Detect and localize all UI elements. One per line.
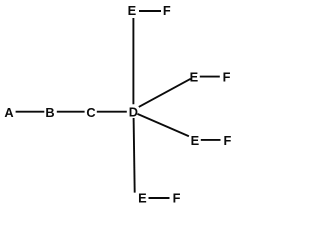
wire D-E upper-right — [139, 79, 191, 107]
svg-text:B: B — [45, 105, 54, 120]
svg-text:E: E — [138, 190, 147, 205]
wire E-F top — [139, 10, 161, 12]
svg-text:F: F — [223, 70, 231, 85]
wire A-B — [16, 111, 45, 113]
svg-text:F: F — [163, 3, 171, 18]
wire E-F lower-right — [201, 139, 221, 141]
wire C-D — [97, 111, 127, 113]
svg-text:E: E — [190, 70, 199, 85]
svg-text:F: F — [223, 133, 231, 148]
wire D-E bottom — [134, 118, 135, 193]
svg-text:A: A — [4, 105, 13, 120]
svg-text:F: F — [173, 190, 181, 205]
wire D-E lower-right — [137, 114, 189, 136]
wire B-C — [57, 111, 85, 113]
svg-text:E: E — [191, 133, 200, 148]
wire E-F bottom — [149, 197, 170, 199]
wire D-E top — [132, 18, 134, 104]
svg-text:D: D — [129, 105, 138, 120]
wire E-F upper-right — [200, 76, 220, 78]
svg-text:E: E — [128, 3, 137, 18]
svg-text:C: C — [86, 105, 95, 120]
